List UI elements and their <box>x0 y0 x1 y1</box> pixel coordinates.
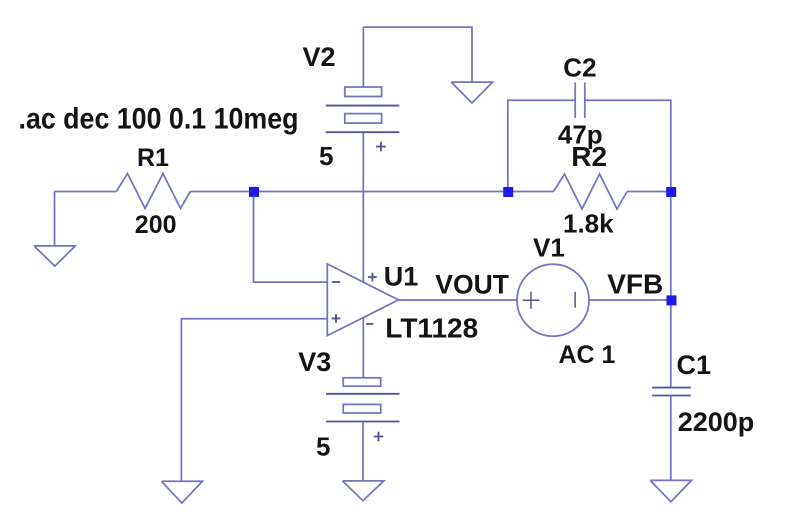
svg-text:5: 5 <box>319 141 333 171</box>
svg-text:R1: R1 <box>137 144 169 172</box>
svg-text:VOUT: VOUT <box>435 270 509 300</box>
svg-text:LT1128: LT1128 <box>385 313 478 344</box>
svg-text:V3: V3 <box>298 347 331 377</box>
svg-text:R2: R2 <box>571 141 607 172</box>
svg-text:2200p: 2200p <box>678 407 755 437</box>
svg-text:C1: C1 <box>677 350 712 380</box>
svg-text:U1: U1 <box>384 262 419 292</box>
svg-text:VFB: VFB <box>607 268 663 299</box>
svg-text:5: 5 <box>316 432 330 462</box>
svg-text:C2: C2 <box>563 52 596 82</box>
svg-text:200: 200 <box>135 211 177 239</box>
svg-text:V2: V2 <box>303 42 336 72</box>
svg-text:V1: V1 <box>533 233 565 263</box>
svg-text:.ac dec 100 0.1 10meg: .ac dec 100 0.1 10meg <box>19 102 299 135</box>
svg-text:1.8k: 1.8k <box>563 209 614 239</box>
svg-text:AC 1: AC 1 <box>559 341 616 369</box>
